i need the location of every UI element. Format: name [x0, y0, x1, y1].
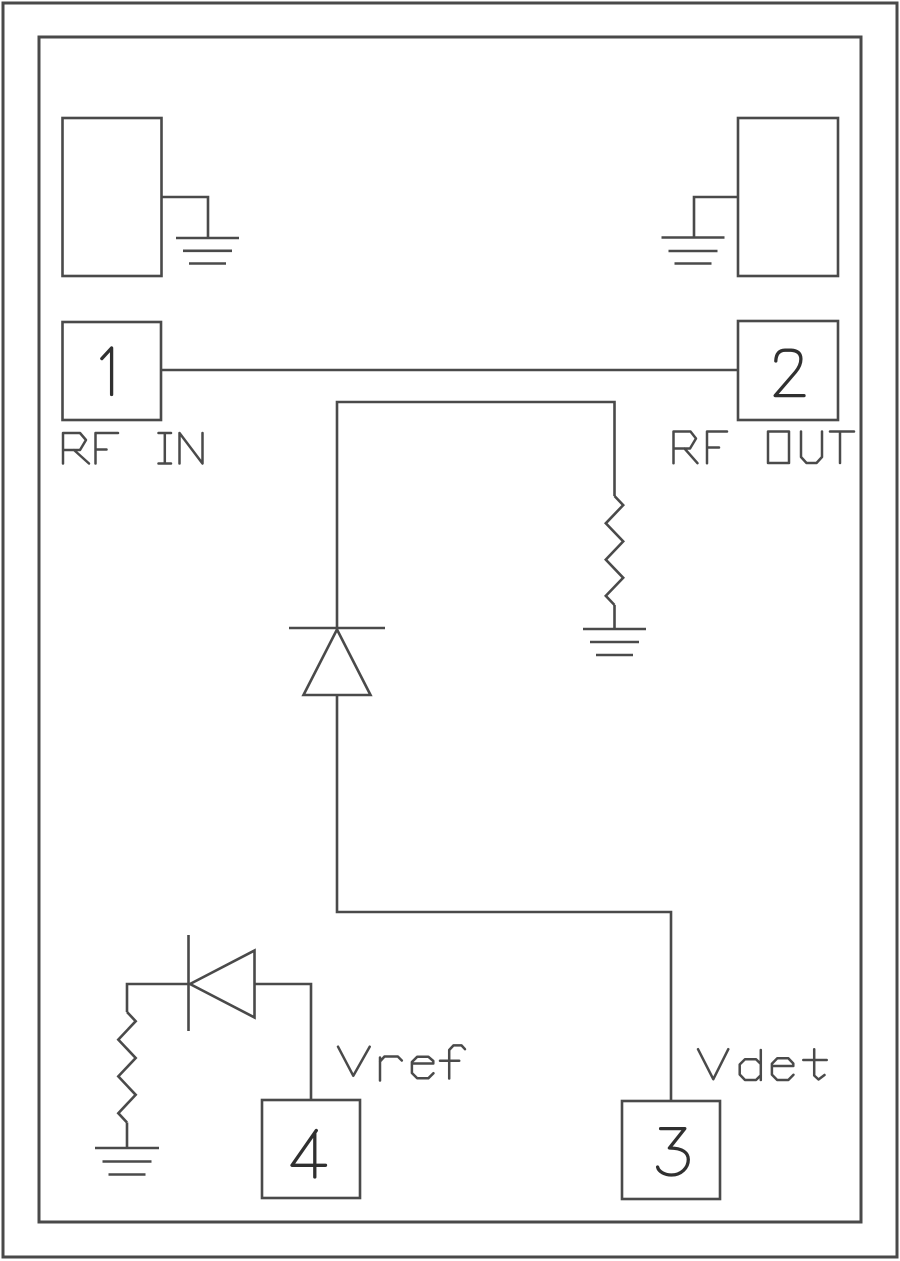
ground (below R1)	[583, 629, 646, 655]
pin number 1	[102, 348, 112, 395]
diode D1 (cathode bar)	[289, 627, 385, 630]
resistor R1	[606, 496, 623, 605]
diode D2 (triangle)	[190, 951, 255, 1018]
pin number 2	[775, 350, 804, 395]
diode D1 (triangle)	[304, 630, 371, 696]
pad P1 (top-left rectangle)	[63, 118, 162, 276]
label Vref	[338, 1045, 465, 1080]
wire from pad P2 to ground	[694, 197, 738, 238]
pin 4 box	[262, 1100, 360, 1198]
pin 3 box	[622, 1101, 720, 1199]
wire D2 anode to pin 4	[255, 984, 312, 1100]
pin number 4	[292, 1131, 326, 1178]
wire D1 anode down and across to pin 3	[337, 695, 671, 1101]
resistor R2	[118, 1012, 135, 1123]
label RF IN	[63, 433, 203, 464]
pin number 3	[658, 1129, 689, 1175]
ground (top-left)	[176, 238, 239, 264]
label Vdet	[698, 1049, 827, 1080]
wire from pad P1 to ground	[162, 197, 209, 238]
diode D2 (cathode bar)	[187, 935, 190, 1031]
pin 1 box	[63, 322, 162, 420]
label RF OUT	[674, 432, 855, 464]
RF trace wire pin1 to pin2	[161, 369, 738, 372]
wire R1 to ground	[613, 605, 616, 629]
wire R2 to ground	[126, 1123, 129, 1149]
pin 2 box	[738, 321, 838, 420]
coupled line wire	[337, 402, 615, 628]
ground (top-right)	[662, 238, 725, 264]
pad P2 (top-right rectangle)	[738, 118, 838, 276]
ground (bottom-left)	[95, 1148, 159, 1175]
wire D2 cathode to resistor R2	[127, 984, 189, 1012]
